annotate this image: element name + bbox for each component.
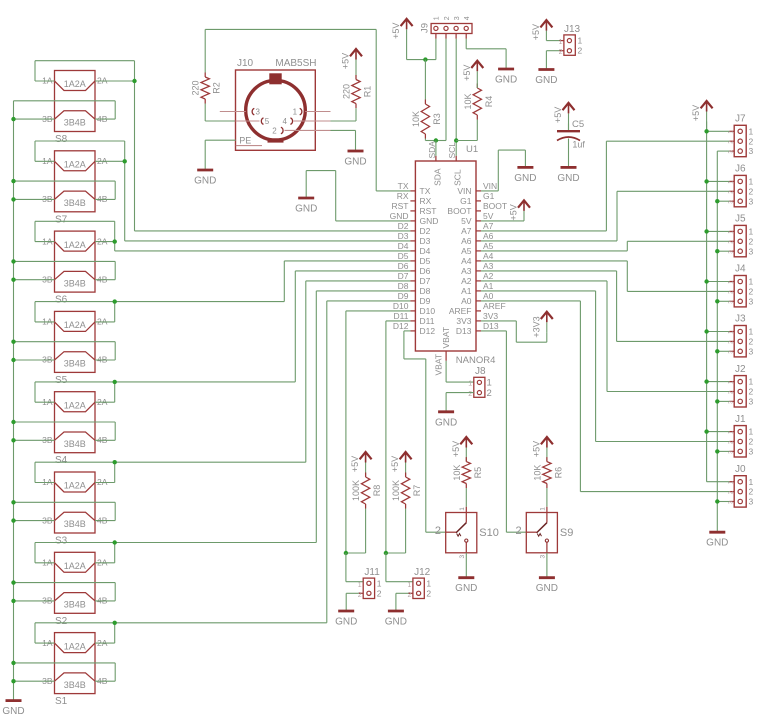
svg-text:S4: S4 (55, 455, 68, 466)
svg-text:+5V: +5V (391, 23, 401, 39)
wire DIN pin2 to GND (331, 130, 356, 151)
node S6 2A junction (113, 239, 117, 243)
svg-text:D5: D5 (398, 251, 409, 261)
svg-text:3: 3 (749, 346, 754, 356)
ground GND (J8) (435, 412, 457, 429)
wire J9 pin4 to GND (466, 39, 506, 69)
wire S5 signal to D5 (115, 261, 411, 322)
svg-text:D8: D8 (420, 286, 431, 296)
power +5V (R1) (341, 49, 363, 80)
svg-text:RST: RST (392, 201, 409, 211)
svg-text:GND: GND (344, 157, 366, 168)
svg-text:+5V: +5V (509, 204, 519, 220)
svg-text:S1: S1 (55, 696, 68, 707)
switch S10 (435, 507, 499, 559)
svg-text:D4: D4 (420, 246, 431, 256)
ground GND (C5) (557, 167, 579, 184)
svg-text:D13: D13 (456, 326, 472, 336)
wire S5 3B (14, 359, 55, 361)
svg-text:R3: R3 (432, 113, 442, 125)
svg-text:2: 2 (435, 525, 441, 537)
switch S1 (42, 633, 108, 708)
svg-text:G1: G1 (483, 191, 495, 201)
wire +5V bus to pin1s (707, 131, 730, 431)
connector J11 (358, 567, 382, 599)
svg-text:D3: D3 (420, 236, 431, 246)
svg-text:1: 1 (749, 327, 754, 337)
svg-text:J2: J2 (735, 364, 746, 375)
wire J12 pin1 (386, 553, 413, 582)
node SCL junction (454, 138, 458, 142)
svg-text:2: 2 (468, 391, 472, 398)
svg-text:GND: GND (420, 216, 439, 226)
svg-text:GND: GND (557, 173, 579, 184)
ground GND (right bus) (706, 532, 728, 549)
wire J11 pin1 (346, 553, 363, 582)
svg-text:1: 1 (434, 16, 441, 20)
svg-text:1: 1 (749, 377, 754, 387)
node +5V bus junctions (704, 129, 708, 434)
svg-text:D6: D6 (398, 261, 409, 271)
svg-text:D6: D6 (420, 266, 431, 276)
svg-text:BOOT: BOOT (483, 201, 507, 211)
wire J13 pin1 (546, 40, 559, 42)
wire S2 2A (95, 562, 115, 564)
svg-text:D9: D9 (398, 291, 409, 301)
svg-text:PE: PE (239, 135, 251, 145)
resistor R8 (351, 473, 382, 509)
wire GND bus to pin3s (717, 201, 729, 501)
power +5V (J13) (531, 20, 553, 40)
svg-text:GND: GND (706, 538, 728, 549)
svg-text:D12: D12 (393, 321, 409, 331)
power +5V (R8) (350, 452, 372, 477)
power +5V (C5) (553, 103, 575, 131)
svg-text:GND: GND (495, 75, 517, 86)
svg-text:3: 3 (749, 497, 754, 507)
wire A4 to J4 pin2 (481, 261, 729, 292)
svg-text:S8: S8 (55, 134, 68, 145)
node S1 3B junction (11, 679, 15, 683)
svg-text:2: 2 (749, 437, 754, 447)
wire A0 to J0 pin2 (481, 301, 729, 492)
node S6 3B junction (11, 278, 15, 282)
svg-text:2: 2 (749, 337, 754, 347)
wire +5V bus (707, 122, 730, 482)
svg-text:D2: D2 (398, 221, 409, 231)
wire S5 4B loop (14, 342, 116, 360)
node S4 3B junction (11, 438, 15, 442)
svg-text:2: 2 (749, 186, 754, 196)
resistor R3 (411, 100, 442, 139)
wire S7 2A (95, 160, 125, 162)
wire S2 4B loop (14, 583, 116, 601)
svg-text:D7: D7 (420, 276, 431, 286)
wire S6 1A loop (35, 221, 115, 241)
wire S6 signal to D4 (115, 221, 411, 251)
svg-text:100K: 100K (351, 480, 361, 501)
node S5 mid-rail junction (11, 340, 15, 344)
svg-text:3: 3 (749, 196, 754, 206)
ground GND (J12) (385, 611, 407, 628)
wire R6 to S9 pin1 (546, 488, 548, 507)
svg-text:R6: R6 (553, 467, 563, 479)
svg-text:GND: GND (2, 706, 24, 717)
wire U1 5V (481, 220, 524, 222)
svg-text:AREF: AREF (449, 306, 472, 316)
ground GND (left bus) (2, 701, 24, 718)
svg-text:R7: R7 (412, 485, 422, 497)
svg-text:J6: J6 (735, 164, 746, 175)
svg-text:A6: A6 (483, 231, 494, 241)
svg-text:3: 3 (539, 555, 546, 559)
svg-text:3: 3 (749, 246, 754, 256)
node S5 3B junction (11, 358, 15, 362)
svg-text:MAB5SH: MAB5SH (275, 58, 316, 69)
svg-text:VIN: VIN (483, 181, 497, 191)
svg-text:GND: GND (455, 583, 477, 594)
svg-text:D7: D7 (398, 271, 409, 281)
net label SDA (427, 141, 437, 159)
svg-text:GND: GND (435, 417, 457, 428)
resistor R1 (342, 75, 373, 108)
switch S9 (515, 507, 573, 559)
svg-text:+5V: +5V (451, 441, 461, 457)
svg-text:GND: GND (390, 211, 409, 221)
svg-text:1: 1 (559, 39, 563, 46)
svg-text:G1: G1 (460, 196, 472, 206)
svg-text:A6: A6 (461, 236, 472, 246)
svg-text:J4: J4 (735, 264, 746, 275)
power +5V (R5) (451, 437, 473, 462)
wire R2 top to TX (205, 29, 410, 191)
svg-text:1A2A: 1A2A (64, 160, 86, 170)
svg-text:1uf: 1uf (572, 140, 585, 150)
wire A1 to J1 pin2 (481, 291, 729, 442)
node S1 mid-rail junction (11, 661, 15, 665)
svg-text:2: 2 (272, 127, 277, 136)
switch S7 (42, 151, 108, 226)
svg-text:3B4B: 3B4B (64, 519, 86, 529)
wire - left GND bus (13, 101, 15, 701)
svg-text:SDA: SDA (427, 141, 437, 159)
wire S6 3B (14, 279, 55, 281)
connector J0 (729, 464, 754, 507)
svg-text:RX: RX (397, 191, 409, 201)
wire S1 1A loop (35, 623, 115, 643)
svg-text:2: 2 (578, 46, 583, 56)
svg-text:J10: J10 (237, 58, 254, 69)
svg-text:2: 2 (749, 136, 754, 146)
svg-text:A3: A3 (461, 266, 472, 276)
svg-text:2: 2 (487, 388, 492, 399)
resistor R2 (191, 73, 222, 104)
connector J3 (729, 314, 754, 357)
svg-text:3: 3 (256, 108, 261, 117)
svg-text:3B4B: 3B4B (64, 198, 86, 208)
svg-text:A2: A2 (461, 276, 472, 286)
wire S4 3B (14, 439, 55, 441)
svg-text:D11: D11 (394, 311, 409, 321)
svg-text:1: 1 (749, 277, 754, 287)
svg-text:1: 1 (578, 36, 583, 46)
wire S1 3B (14, 680, 55, 682)
power +3V3 (531, 312, 553, 338)
power +5V (U1 5V) (509, 200, 531, 221)
svg-text:+5V: +5V (691, 105, 701, 121)
wire DIN PE to GND (205, 140, 236, 170)
svg-text:1: 1 (377, 578, 382, 588)
svg-text:2: 2 (377, 588, 382, 598)
svg-text:D13: D13 (483, 321, 499, 331)
svg-text:D3: D3 (398, 231, 409, 241)
svg-text:1: 1 (749, 177, 754, 187)
svg-text:2: 2 (749, 487, 754, 497)
wire R7 bottom (386, 509, 406, 554)
wire J13 pin2 to GND (546, 51, 559, 70)
svg-text:A1: A1 (483, 281, 494, 291)
power +5V (J9) (391, 19, 413, 60)
svg-text:3V3: 3V3 (456, 316, 471, 326)
svg-text:3B4B: 3B4B (64, 439, 86, 449)
svg-text:+3V3: +3V3 (531, 316, 541, 337)
node S2 rail junction (113, 540, 117, 544)
svg-text:A4: A4 (461, 256, 472, 266)
node S8 3B junction (11, 117, 15, 121)
svg-text:3V3: 3V3 (483, 311, 498, 321)
svg-text:3: 3 (459, 555, 466, 559)
wire U1 VIN to ground (481, 150, 525, 191)
wire S8 1A loop (35, 61, 135, 81)
svg-text:D4: D4 (398, 241, 409, 251)
ground GND (U1) (295, 198, 317, 215)
node S1 rail junction (113, 621, 117, 625)
svg-text:1A2A: 1A2A (64, 400, 86, 410)
wire J12 pin2 to GND (396, 593, 409, 611)
ground GND (S9) (536, 578, 558, 595)
svg-text:10K: 10K (411, 111, 421, 127)
svg-text:J12: J12 (414, 567, 431, 578)
svg-text:A3: A3 (483, 261, 494, 271)
svg-text:1A2A: 1A2A (64, 481, 86, 491)
svg-text:3B4B: 3B4B (64, 118, 86, 128)
svg-text:+5V: +5V (531, 441, 541, 457)
svg-text:C5: C5 (572, 119, 584, 130)
resistor R6 (532, 457, 563, 488)
node S3 3B junction (11, 518, 15, 522)
connector J1 (729, 414, 754, 457)
wire S1 4B loop (14, 663, 116, 681)
wire S5 1A loop (35, 302, 115, 322)
svg-text:D8: D8 (398, 281, 409, 291)
svg-text:GND: GND (514, 173, 536, 184)
svg-text:D9: D9 (420, 296, 431, 306)
svg-text:2: 2 (749, 387, 754, 397)
wire S4 signal to D6 (115, 271, 411, 402)
wire J9 pin2 (SDA) (436, 39, 446, 141)
svg-text:1A2A: 1A2A (64, 79, 86, 89)
svg-text:3B4B: 3B4B (64, 600, 86, 610)
svg-text:U1: U1 (466, 144, 478, 155)
svg-text:10K: 10K (463, 93, 473, 109)
svg-text:+5V: +5V (553, 107, 563, 123)
node R3/+5V junction (423, 57, 427, 61)
svg-text:R2: R2 (212, 82, 222, 94)
resistor R5 (452, 457, 483, 488)
connector J6 (729, 164, 754, 207)
wire A7 to J7 pin2 (481, 141, 729, 231)
wire J9 pin1 to +5V (407, 39, 436, 60)
svg-text:D12: D12 (420, 326, 436, 336)
wire U1 D12 to S10 (404, 331, 446, 532)
svg-text:1: 1 (749, 427, 754, 437)
svg-text:GND: GND (385, 617, 407, 628)
svg-text:SCL: SCL (453, 169, 463, 186)
svg-text:D11: D11 (420, 316, 435, 326)
capacitor C5 (557, 119, 585, 149)
svg-text:A7: A7 (461, 226, 472, 236)
wire S2 3B (14, 600, 55, 602)
svg-text:2: 2 (749, 287, 754, 297)
wire A6 to J6 pin2 (481, 191, 729, 241)
svg-text:J3: J3 (735, 314, 746, 325)
wire S3 4B loop (14, 502, 116, 520)
svg-text:1A2A: 1A2A (64, 561, 86, 571)
connector J10 pin glyphs (252, 108, 302, 136)
wire C5 to GND (568, 139, 570, 168)
svg-text:3B4B: 3B4B (64, 278, 86, 288)
connector J8 (468, 366, 492, 399)
wire S4 4B loop (14, 422, 116, 440)
node S8 2A junction (132, 79, 136, 83)
svg-text:1A2A: 1A2A (64, 240, 86, 250)
connector J9 (419, 16, 472, 39)
wire R3 to SDA (425, 139, 436, 141)
wire S3 3B (14, 520, 55, 522)
svg-text:GND: GND (194, 176, 216, 187)
svg-text:+5V: +5V (462, 65, 472, 81)
ground GND (PE) (194, 170, 216, 187)
svg-text:J7: J7 (735, 114, 746, 125)
switch S2 (42, 552, 108, 627)
svg-text:D2: D2 (420, 226, 431, 236)
wire U1 GND to ground (306, 171, 410, 221)
switch S4 (42, 392, 108, 467)
svg-text:SDA: SDA (432, 168, 442, 186)
wire U1 D10 to J11 (346, 311, 411, 553)
wire S8 signal to D2 (135, 61, 411, 231)
svg-text:S9: S9 (560, 527, 573, 539)
svg-text:RX: RX (420, 196, 432, 206)
wire A5 to J5 pin2 (481, 241, 729, 251)
svg-text:J11: J11 (364, 567, 380, 578)
wire R8 bottom (346, 509, 366, 554)
connector J4 (729, 264, 754, 307)
switch S5 (42, 311, 108, 386)
svg-text:5: 5 (265, 117, 270, 126)
svg-text:1: 1 (459, 507, 466, 511)
connector J13 (559, 24, 583, 56)
resistor R7 (391, 473, 422, 509)
svg-text:AREF: AREF (483, 301, 506, 311)
connector J7 (729, 114, 754, 157)
wire R5 to S10 pin1 (465, 488, 467, 507)
svg-text:J13: J13 (564, 24, 581, 35)
node R8/J11 junction (344, 551, 348, 555)
op-amp U1 NANOR4 (IC box) (410, 144, 495, 366)
wire S3 2A (95, 482, 115, 484)
svg-text:R4: R4 (484, 96, 494, 108)
ground GND (S10) (455, 578, 477, 595)
wire S4 2A (95, 401, 115, 403)
svg-text:S7: S7 (55, 214, 68, 225)
wire S7 signal to D3 (125, 141, 411, 241)
ground GND (J9 pin4) (495, 69, 517, 86)
svg-text:S10: S10 (479, 527, 499, 539)
svg-text:2: 2 (559, 49, 563, 56)
svg-text:+5V: +5V (531, 24, 541, 40)
connector J2 (729, 364, 754, 407)
switch S8 (42, 71, 108, 146)
net label SCL (447, 142, 457, 159)
svg-text:1: 1 (407, 582, 411, 589)
wire S7 3B (14, 198, 55, 200)
node S7 mid-rail junction (11, 179, 15, 183)
connector J10 MAB5SH box (236, 58, 317, 150)
resistor R4 (463, 84, 494, 120)
svg-text:VBAT: VBAT (434, 354, 444, 376)
svg-text:TX: TX (398, 181, 409, 191)
svg-text:R1: R1 (363, 86, 373, 98)
svg-text:GND: GND (295, 204, 317, 215)
node S4 mid-rail junction (11, 420, 15, 424)
wire S3 signal to D7 (115, 281, 411, 483)
net label VBAT (434, 354, 444, 376)
wire J9 pin3 (SCL) (455, 39, 457, 156)
svg-text:1: 1 (749, 227, 754, 237)
power +5V (right bus) (691, 101, 713, 131)
wire S10 pin3 to GND (465, 553, 467, 578)
ground GND (DIN pin2) (344, 151, 366, 168)
wire S6 2A (95, 241, 115, 243)
svg-text:2: 2 (515, 525, 521, 537)
wire S2 1A loop (35, 543, 115, 563)
svg-text:4: 4 (464, 16, 471, 20)
svg-text:10K: 10K (452, 465, 462, 481)
wire S7 1A loop (35, 141, 125, 161)
wire R2 bottom to DIN pin5 (205, 104, 235, 122)
svg-text:1: 1 (539, 507, 546, 511)
wire S7 4B loop (14, 181, 116, 199)
ground GND (J13) (535, 70, 557, 87)
svg-text:GND: GND (335, 617, 357, 628)
svg-text:1: 1 (293, 108, 298, 117)
svg-text:S5: S5 (55, 375, 68, 386)
node GND bus junctions (715, 199, 719, 504)
svg-text:3: 3 (749, 447, 754, 457)
node S5 rail junction (113, 299, 117, 303)
node S3 rail junction (113, 460, 117, 464)
wire J11 pin2 to GND (346, 593, 359, 611)
ground GND (J11) (335, 611, 357, 628)
wire S1 signal to D9 (115, 301, 411, 643)
svg-text:5V: 5V (483, 211, 494, 221)
svg-text:VIN: VIN (457, 186, 471, 196)
node S6 mid-rail junction (11, 259, 15, 263)
svg-text:A2: A2 (483, 271, 494, 281)
node S7 3B junction (11, 197, 15, 201)
svg-text:A5: A5 (461, 246, 472, 256)
